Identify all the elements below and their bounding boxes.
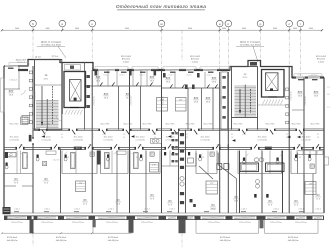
svg-text:1-10м2: 1-10м2 (123, 61, 130, 63)
party wall x=33 (32, 66, 34, 213)
svg-text:ВЛ: ВЛ (268, 201, 272, 203)
elevator shaft left (64, 72, 86, 108)
svg-text:Люк 12-10: Люк 12-10 (136, 137, 145, 139)
svg-text:2.1х1.4: 2.1х1.4 (74, 209, 79, 211)
svg-text:БТУ-м 2П.5-м: БТУ-м 2П.5-м (41, 222, 53, 224)
svg-text:1.2: 1.2 (286, 137, 288, 139)
svg-text:3400: 3400 (222, 28, 226, 30)
svg-text:2.7-0.2 4.51: 2.7-0.2 4.51 (35, 91, 37, 100)
radiators above bottom windows (14, 210, 19, 213)
bathroom rooms flanking central shaft (162, 165, 179, 167)
stacked wash circles near x262 (256, 180, 260, 184)
svg-text:0-3: 0-3 (327, 94, 330, 96)
hall door marks upper band (100, 82, 103, 86)
svg-text:ЮУЖ-Бм0: ЮУЖ-Бм0 (288, 237, 299, 239)
left apartment door arc (21, 90, 25, 94)
lower partition left apartment y=186 (4, 185, 16, 187)
svg-text:3400: 3400 (273, 28, 277, 30)
svg-text:2.1х1.4: 2.1х1.4 (14, 209, 19, 211)
svg-text:8Б-0.2 98.6: 8Б-0.2 98.6 (266, 123, 275, 125)
grid bubble axis 5 (216, 20, 223, 27)
svg-text:2.7-0.2 4.51: 2.7-0.2 4.51 (221, 96, 223, 105)
svg-text:Отделочный план типового этажа: Отделочный план типового этажа (116, 3, 207, 10)
bathroom partition x20.5 (20, 151, 22, 174)
svg-text:8Б-0.2 98.6: 8Б-0.2 98.6 (42, 123, 51, 125)
interior walls upper band (61, 63, 63, 115)
svg-text:8Б-0.2 98.6: 8Б-0.2 98.6 (204, 123, 213, 125)
svg-text:3400: 3400 (309, 28, 313, 30)
svg-text:Люк 12-10: Люк 12-10 (42, 137, 51, 139)
svg-text:3.0х1.5: 3.0х1.5 (119, 75, 124, 77)
svg-text:СТ-Б 0-3: СТ-Б 0-3 (17, 62, 26, 64)
svg-text:3400: 3400 (293, 28, 297, 30)
bottom wall piers (4, 216, 8, 220)
svg-text:3.0х1.5: 3.0х1.5 (168, 75, 173, 77)
svg-text:ВЛ: ВЛ (168, 201, 172, 203)
svg-text:1.2: 1.2 (317, 137, 319, 139)
svg-text:ЮУЖ-Бм0: ЮУЖ-Бм0 (108, 237, 119, 239)
balcony slab top 1 (9, 63, 29, 66)
svg-text:ЮУЖ-Бм0: ЮУЖ-Бм0 (56, 237, 67, 239)
svg-text:БТУ-м 2П.5-м: БТУ-м 2П.5-м (141, 222, 153, 224)
svg-text:8Б-0.2 98.6: 8Б-0.2 98.6 (186, 123, 195, 125)
party wall x=161.5 (161, 70, 163, 213)
bathroom partitions band (32, 151, 34, 174)
svg-text:Двери по площадке: Двери по площадке (41, 42, 62, 44)
stair left treads (36, 100, 59, 102)
svg-text:1-10м2: 1-10м2 (192, 61, 199, 63)
svg-text:ДП-1Б-4БЛ: ДП-1Б-4БЛ (16, 59, 27, 61)
stair right arrow (239, 89, 241, 113)
elevator car left with X (70, 80, 82, 102)
bottom interior wall line (4, 212, 324, 214)
corridor lower wall y=148.4 (4, 146, 17, 148)
dark pier x97-100.5 (97, 151, 101, 165)
svg-text:2.1х1.4: 2.1х1.4 (273, 209, 278, 211)
svg-text:ВЛР: ВЛР (206, 98, 211, 100)
kitchen stove circles left of party wall (151, 138, 162, 143)
grid bubble axis 2 (59, 20, 66, 27)
elevator shaft right (262, 70, 285, 98)
door gap in party wall x33 (32, 139, 33, 144)
svg-text:БТУ-м 2П.5-м: БТУ-м 2П.5-м (106, 222, 118, 224)
svg-text:2.7-0.2 4.51: 2.7-0.2 4.51 (290, 91, 292, 100)
svg-text:ВЛ: ВЛ (44, 179, 48, 181)
svg-text:8Б-0.2 98.6: 8Б-0.2 98.6 (101, 123, 110, 125)
svg-text:п+П.бм(1П): п+П.бм(1П) (135, 139, 145, 141)
apartment legend table 7 (206, 181, 218, 194)
building left exterior wall (3, 66, 5, 213)
svg-text:СТ-Б 0-3: СТ-Б 0-3 (9, 80, 16, 82)
grid bubble axis 9 (297, 20, 304, 27)
svg-text:3.0х1.5: 3.0х1.5 (186, 75, 191, 77)
svg-text:ВЛР: ВЛР (126, 94, 131, 96)
wardrobe counter right-end (297, 151, 323, 155)
svg-text:ВП-12-4БЛ: ВП-12-4БЛ (316, 56, 327, 58)
svg-text:п+П.бм(1П): п+П.бм(1П) (257, 139, 267, 141)
stair right treads (235, 85, 257, 87)
svg-text:Люк 12-10: Люк 12-10 (10, 137, 19, 139)
svg-text:№4-4(Б)бм: №4-4(Б)бм (7, 239, 18, 242)
balcony below 2 (196, 220, 259, 233)
vent bar left corridor (29, 135, 32, 142)
washing machines (43, 162, 47, 166)
entrance porch left (3, 207, 11, 214)
top wall piers (18, 69, 28, 71)
svg-text:3400: 3400 (15, 28, 19, 30)
svg-text:ВЛР: ВЛР (96, 77, 101, 79)
svg-text:ВЛ: ВЛ (316, 195, 320, 197)
svg-text:2.1: 2.1 (317, 134, 319, 136)
svg-text:БТУ-м 2П.5-м: БТУ-м 2П.5-м (270, 222, 282, 224)
svg-text:ВЛР: ВЛР (166, 78, 171, 80)
svg-text:ВЛР: ВЛР (314, 92, 319, 94)
party wall x=92.2 (91, 70, 93, 213)
svg-text:8Б-0.2 98.6: 8Б-0.2 98.6 (292, 123, 301, 125)
left apartment legend small box (21, 117, 28, 125)
svg-text:1.2: 1.2 (123, 137, 125, 139)
svg-text:2.1: 2.1 (327, 87, 329, 89)
svg-text:ВЛ: ВЛ (83, 200, 87, 202)
svg-text:3.0х1.5: 3.0х1.5 (139, 75, 144, 77)
svg-text:ВЛ: ВЛ (116, 200, 120, 202)
svg-text:ВП-12-4БЛ: ВП-12-4БЛ (121, 56, 132, 58)
svg-text:ВЛР: ВЛР (9, 91, 14, 93)
svg-text:(2×0.85м; S=1.9м2): (2×0.85м; S=1.9м2) (41, 43, 61, 46)
svg-text:1.2: 1.2 (327, 107, 329, 109)
svg-text:БТУ-м 2П.5-м: БТУ-м 2П.5-м (11, 222, 23, 224)
bottom pier stubs (30, 220, 34, 233)
svg-text:п+П.бм(1П): п+П.бм(1П) (301, 139, 311, 141)
stairwell right walls (232, 67, 258, 118)
grid bubble axis 6 (225, 20, 232, 27)
svg-text:2.1х1.4: 2.1х1.4 (144, 209, 149, 211)
svg-text:ВЛР: ВЛР (212, 78, 217, 80)
svg-text:2.7-0.2 4.51: 2.7-0.2 4.51 (305, 96, 307, 105)
stair left arrow (41, 86, 43, 125)
svg-text:3400: 3400 (125, 28, 129, 30)
svg-text:№4-4(Б)бм: №4-4(Б)бм (288, 239, 299, 242)
corridor direction arrows (42, 135, 45, 137)
svg-text:м: м (160, 22, 162, 26)
party wall x=228.3 (227, 72, 229, 213)
svg-text:8Б-0.2 98.6: 8Б-0.2 98.6 (143, 123, 152, 125)
svg-text:1.2: 1.2 (231, 137, 233, 139)
bottom dimension ticks (1, 232, 3, 234)
grid axis line 1 (32, 30, 34, 58)
grid axis tail below building x182 (181, 234, 183, 248)
left wall fixture (5, 152, 8, 158)
machine box above right core (250, 62, 257, 66)
balcony slab top 3 (132, 67, 158, 70)
svg-text:1.2: 1.2 (186, 137, 188, 139)
svg-text:Люк 12-10: Люк 12-10 (166, 137, 175, 139)
svg-text:2.1: 2.1 (286, 134, 288, 136)
corridor door frames (38, 129, 40, 131)
balcony below 1 (93, 220, 132, 233)
hatch door box ЛУ-2 right (265, 147, 272, 150)
grid axis line 2 (91, 30, 93, 70)
right wall small annex (324, 157, 328, 165)
svg-text:СУ-2 1.9: СУ-2 1.9 (53, 160, 60, 162)
grid bubble axis 1 (30, 20, 37, 27)
svg-text:БТУ-м 2П.5-м: БТУ-м 2П.5-м (239, 222, 251, 224)
stove pair near utility axes (217, 164, 222, 170)
svg-text:2.1: 2.1 (61, 134, 63, 136)
corridor door leaves (42, 130, 45, 135)
svg-text:8Б-0.2 98.6: 8Б-0.2 98.6 (311, 123, 320, 125)
utility shaft column x 219.7-228.3 (221, 72, 227, 130)
central utility shaft x=178.5-185.5 (178, 130, 180, 213)
vent boxes strip left apartment (29, 71, 32, 74)
party wall x=282.5 (282, 151, 284, 214)
grid axis line 9 (299, 30, 301, 77)
svg-text:2КЛ-1: 2КЛ-1 (44, 78, 49, 80)
apartment legend table 3 (176, 98, 187, 112)
svg-text:ПР Б-0: ПР Б-0 (52, 56, 59, 58)
dimension ticks (32, 29, 34, 31)
bathtubs vertical (23, 153, 28, 169)
svg-text:2.1х1.4: 2.1х1.4 (315, 209, 320, 211)
svg-text:ВЛР: ВЛР (150, 77, 155, 79)
party wall x=262 (261, 151, 263, 214)
svg-text:2.7-0.2 4.51: 2.7-0.2 4.51 (94, 96, 96, 105)
building right exterior wall (323, 78, 325, 214)
svg-text:1-10м2: 1-10м2 (318, 61, 325, 63)
grid bubble axis 4 (158, 20, 165, 27)
svg-text:ВП-12-4БЛ: ВП-12-4БЛ (190, 56, 201, 58)
svg-text:2.1х1.4: 2.1х1.4 (108, 209, 113, 211)
svg-text:(2×0.85м; S=1.9м2): (2×0.85м; S=1.9м2) (240, 43, 260, 46)
balcony slab top 2 (95, 67, 128, 70)
svg-text:2.1: 2.1 (231, 134, 233, 136)
kitchen counters (46, 151, 56, 154)
apartment legend table 6 (305, 182, 316, 195)
svg-text:2.1: 2.1 (92, 134, 94, 136)
svg-text:ВЛР: ВЛР (194, 98, 199, 100)
svg-text:3.0х1.5: 3.0х1.5 (297, 75, 302, 77)
svg-text:№4-4(Б)бм: №4-4(Б)бм (108, 239, 119, 242)
apartment legend table 4 (150, 163, 159, 173)
bathtubs horizontal dark pair (240, 163, 259, 172)
svg-text:ВЛ: ВЛ (150, 195, 154, 197)
vent boxes right of left elevator (87, 75, 90, 78)
apartment legend table 1 (22, 116, 30, 124)
svg-text:2.1: 2.1 (154, 134, 156, 136)
grid axis tail below building x33 (32, 222, 34, 246)
bathtub left-end horizontal (7, 153, 17, 157)
grid axis line 3 (161, 30, 163, 70)
svg-text:ЛУ-2: ЛУ-2 (76, 148, 80, 150)
party wall x=289.2 (288, 67, 290, 214)
stair left landing edge (35, 84, 62, 86)
svg-text:1.2: 1.2 (92, 137, 94, 139)
svg-text:2.1: 2.1 (186, 134, 188, 136)
twin sinks center pair (254, 158, 259, 162)
elevator car right with X (266, 73, 279, 91)
svg-text:ВЛ: ВЛ (294, 201, 298, 203)
svg-text:п+П.бм(1П): п+П.бм(1П) (41, 139, 51, 141)
hatch below right elevator (263, 100, 265, 105)
svg-text:3400: 3400 (188, 28, 192, 30)
party wall x=129.5 (129, 70, 131, 213)
svg-text:2КЛ-2: 2КЛ-2 (243, 77, 248, 79)
radiators under top windows (8, 68, 14, 69)
svg-text:ВЛР: ВЛР (298, 92, 303, 94)
toilets (6, 163, 8, 166)
balcony slab top 4 (163, 67, 196, 70)
svg-text:ВП-10м2: ВП-10м2 (317, 59, 326, 61)
svg-text:ЮУЖ-Бм0: ЮУЖ-Бм0 (7, 237, 18, 239)
balcony slab top 6 (294, 74, 322, 77)
svg-text:8Б-0.2 98.6: 8Б-0.2 98.6 (234, 123, 243, 125)
grid axis line 6 (227, 30, 229, 71)
vent cell cluster left of shaft (172, 132, 175, 134)
svg-text:1.2: 1.2 (154, 137, 156, 139)
hatch door box ЛУ-2 left (74, 147, 82, 150)
svg-text:Люк 12-10: Люк 12-10 (302, 137, 311, 139)
svg-text:2.1х1.4: 2.1х1.4 (298, 209, 303, 211)
svg-text:ВЛР: ВЛР (104, 94, 109, 96)
svg-text:3.0х1.5: 3.0х1.5 (311, 75, 316, 77)
stairwell left walls (35, 60, 62, 130)
svg-text:ВЛ: ВЛ (211, 205, 215, 207)
svg-text:8Б-0.2 98.6: 8Б-0.2 98.6 (124, 123, 133, 125)
svg-text:Люк 12-10: Люк 12-10 (201, 137, 210, 139)
apartment legend table 5 (76, 181, 86, 192)
elevator left door (70, 107, 79, 109)
svg-text:ДГ 2-Б: ДГ 2-Б (35, 57, 42, 59)
svg-text:2.1х1.4: 2.1х1.4 (210, 209, 215, 211)
svg-text:3.0х1.5: 3.0х1.5 (103, 75, 108, 77)
svg-text:2.1х1.4: 2.1х1.4 (44, 209, 49, 211)
corridor upper wall y=129.8 (33, 128, 40, 130)
top wall windows (5, 65, 18, 67)
core landing door arc left (56, 116, 61, 121)
svg-text:1А: 1А (45, 74, 48, 77)
svg-text:3400: 3400 (242, 28, 246, 30)
landing floor line right core (258, 104, 289, 106)
bathroom door arcs (21, 151, 24, 153)
party wall x=239.5 (239, 151, 241, 214)
hatch below left elevator (65, 110, 67, 115)
party wall x=219.7 (219, 72, 221, 213)
svg-text:ВЛ: ВЛ (234, 197, 238, 199)
grid axis line 5 (219, 30, 221, 71)
grid axis line 4 (181, 30, 183, 60)
svg-text:№4-4(Б)бм: №4-4(Б)бм (56, 239, 67, 242)
svg-text:3400: 3400 (75, 28, 79, 30)
svg-text:3.0х1.5: 3.0х1.5 (206, 75, 211, 77)
bottom exterior wall band (4, 215, 324, 217)
bottom wall windows (8, 216, 26, 218)
vent boxes strip right apartment (286, 88, 289, 91)
svg-text:п+П.бм(1П): п+П.бм(1П) (200, 139, 210, 141)
svg-text:2.1х1.4: 2.1х1.4 (169, 209, 174, 211)
balcony below 3 (265, 220, 319, 233)
building top exterior wall (stepped) (4, 60, 324, 78)
svg-text:3400: 3400 (45, 28, 49, 30)
svg-text:БТУ-м 2П.5-м: БТУ-м 2П.5-м (72, 222, 84, 224)
svg-text:ВЛ: ВЛ (14, 179, 18, 181)
grid axis line 7 (260, 30, 262, 66)
grid bubble axis 8 (286, 20, 293, 27)
svg-text:Люк 12-10: Люк 12-10 (258, 137, 267, 139)
svg-text:8Б-0.2 98.6: 8Б-0.2 98.6 (10, 123, 19, 125)
svg-text:БТУ-м 2П.5-м: БТУ-м 2П.5-м (295, 222, 307, 224)
svg-text:8Б-0.2 98.6: 8Б-0.2 98.6 (166, 123, 175, 125)
svg-text:ЮУЖ-Бм0: ЮУЖ-Бм0 (220, 237, 231, 239)
svg-text:ВП-10м2: ВП-10м2 (122, 59, 131, 61)
grid bubble axis 3 (89, 20, 96, 27)
bottom dimension line left (2, 232, 93, 234)
grid axis line 8 (288, 30, 290, 66)
svg-text:2.7-0.2 4.51: 2.7-0.2 4.51 (131, 96, 133, 105)
svg-text:Люк 12-10: Люк 12-10 (104, 137, 113, 139)
balcony slab top 5 (200, 67, 230, 70)
svg-text:№4-4(Б)бм: №4-4(Б)бм (220, 239, 231, 242)
corridor door arcs (42, 131, 46, 134)
svg-text:БТУ-м 2П.5-м: БТУ-м 2П.5-м (208, 222, 220, 224)
svg-text:1.2: 1.2 (61, 137, 63, 139)
svg-text:п+П.бм(1П): п+П.бм(1П) (9, 139, 19, 141)
corridor stub wall center (219, 145, 221, 151)
svg-text:п+П.бм(1П): п+П.бм(1П) (103, 139, 113, 141)
svg-text:ВП-10м2: ВП-10м2 (191, 59, 200, 61)
apartment legend table 2 (157, 98, 168, 112)
svg-text:Люк 12-10: Люк 12-10 (74, 137, 83, 139)
top dimension line (2, 29, 322, 31)
svg-text:п+П.бм(1П): п+П.бм(1П) (73, 139, 83, 141)
grid bubble axis 7 (257, 20, 264, 27)
party wall x=304 (303, 78, 305, 214)
svg-text:Двери по площадке: Двери по площадке (240, 42, 261, 44)
svg-text:2.1: 2.1 (123, 134, 125, 136)
elevator right door (268, 96, 277, 98)
lower rooms partitions (60, 148, 62, 213)
machine area above left elevator (65, 65, 81, 71)
svg-text:2.1х1.4: 2.1х1.4 (241, 209, 246, 211)
left side balcony (1, 78, 4, 112)
